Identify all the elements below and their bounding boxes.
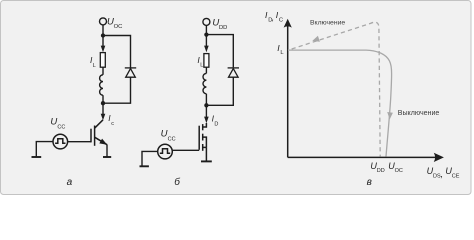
wire resistor to inductor b xyxy=(205,67,207,73)
svg-text:D: D xyxy=(214,121,218,127)
svg-text:в: в xyxy=(367,177,372,188)
axis Y current graph xyxy=(284,19,292,158)
svg-text:U: U xyxy=(50,117,57,128)
label U_DS U_CE axis xyxy=(427,166,460,179)
wire node to diode branch top a xyxy=(103,36,131,68)
resistor load circuit b xyxy=(204,54,209,68)
label U_OC xyxy=(107,16,122,30)
svg-text:,: , xyxy=(272,13,274,23)
transistor VT1 IGBT circuit a xyxy=(91,120,107,146)
svg-text:L: L xyxy=(200,63,203,69)
ground emitter circuit a xyxy=(103,156,111,158)
label I_D I_C axis xyxy=(265,10,283,24)
svg-text:L: L xyxy=(93,63,96,69)
wire diode bottom to node b xyxy=(206,77,233,105)
label U_CC circuit a xyxy=(50,117,65,131)
node junction circuit a top xyxy=(101,33,105,37)
label U_DD xyxy=(212,17,227,30)
pulse source U_CC circuit a xyxy=(53,134,68,149)
current arrow I_C circuit a xyxy=(101,103,106,120)
svg-text:DD: DD xyxy=(377,168,385,174)
turn-off trajectory solid xyxy=(288,50,392,157)
wire emitter to ground a xyxy=(106,145,108,157)
svg-text:Выключение: Выключение xyxy=(398,110,440,117)
svg-text:CE: CE xyxy=(452,173,460,179)
wire inductor to node b xyxy=(205,94,207,106)
svg-text:DD: DD xyxy=(219,25,227,31)
wire source to ground a xyxy=(36,142,53,157)
label I_C circuit a xyxy=(108,113,114,127)
svg-text:,: , xyxy=(441,169,444,179)
current arrow I_L circuit b xyxy=(204,35,209,52)
svg-text:CC: CC xyxy=(57,124,65,130)
svg-text:CC: CC xyxy=(168,136,176,142)
node junction circuit b top xyxy=(204,32,208,36)
label I_L graph xyxy=(277,43,284,56)
label U_OC tick xyxy=(388,161,403,174)
inductor L circuit a xyxy=(100,75,103,95)
current arrow I_D circuit b xyxy=(204,105,209,123)
label I_L circuit b xyxy=(197,55,203,69)
turn-on trajectory dashed xyxy=(288,22,380,156)
diode VD1 circuit a xyxy=(125,68,136,77)
wire node to diode branch top b xyxy=(206,35,233,68)
terminal U_DD circuit b xyxy=(203,18,210,25)
wire source to gate b xyxy=(172,149,199,151)
arrow on turn-off trajectory xyxy=(387,112,393,119)
ground source circuit a xyxy=(32,156,42,158)
axis X voltage graph xyxy=(288,153,444,162)
svg-text:OC: OC xyxy=(395,168,403,174)
node junction circuit b bottom xyxy=(204,103,208,107)
wire source to base a xyxy=(68,141,91,143)
ground source circuit b transistor xyxy=(201,160,212,162)
wire inductor to node a xyxy=(102,95,104,103)
pulse source U_CC circuit b xyxy=(158,144,173,159)
svg-text:б: б xyxy=(174,176,180,188)
wire resistor to inductor a xyxy=(102,67,104,75)
svg-text:Включение: Включение xyxy=(310,19,345,26)
arrow on turn-on trajectory xyxy=(312,36,320,42)
svg-text:U: U xyxy=(161,129,168,140)
label U_DD tick xyxy=(370,161,384,174)
node junction circuit a bottom xyxy=(101,101,105,105)
wire diode bottom to node a xyxy=(103,77,131,103)
svg-text:c: c xyxy=(111,121,114,127)
label I_D circuit b xyxy=(212,113,219,127)
current arrow I_L circuit a xyxy=(101,36,106,52)
wire terminal to node b xyxy=(205,25,207,34)
wire source to ground b xyxy=(142,151,158,165)
label I_L circuit a xyxy=(90,55,96,69)
ground pulse source circuit b xyxy=(140,165,149,167)
resistor load circuit a xyxy=(100,53,105,68)
wire source to ground b transistor xyxy=(205,147,207,160)
svg-text:C: C xyxy=(279,17,283,23)
terminal U_OC circuit a xyxy=(100,18,107,25)
transistor VT2 MOSFET circuit b xyxy=(199,123,206,151)
svg-text:OC: OC xyxy=(114,24,123,30)
svg-text:а: а xyxy=(67,177,73,188)
diode VD2 circuit b xyxy=(228,68,239,77)
inductor L circuit b xyxy=(203,73,206,93)
wire terminal to node a xyxy=(102,25,104,36)
label U_CC circuit b xyxy=(161,129,176,143)
